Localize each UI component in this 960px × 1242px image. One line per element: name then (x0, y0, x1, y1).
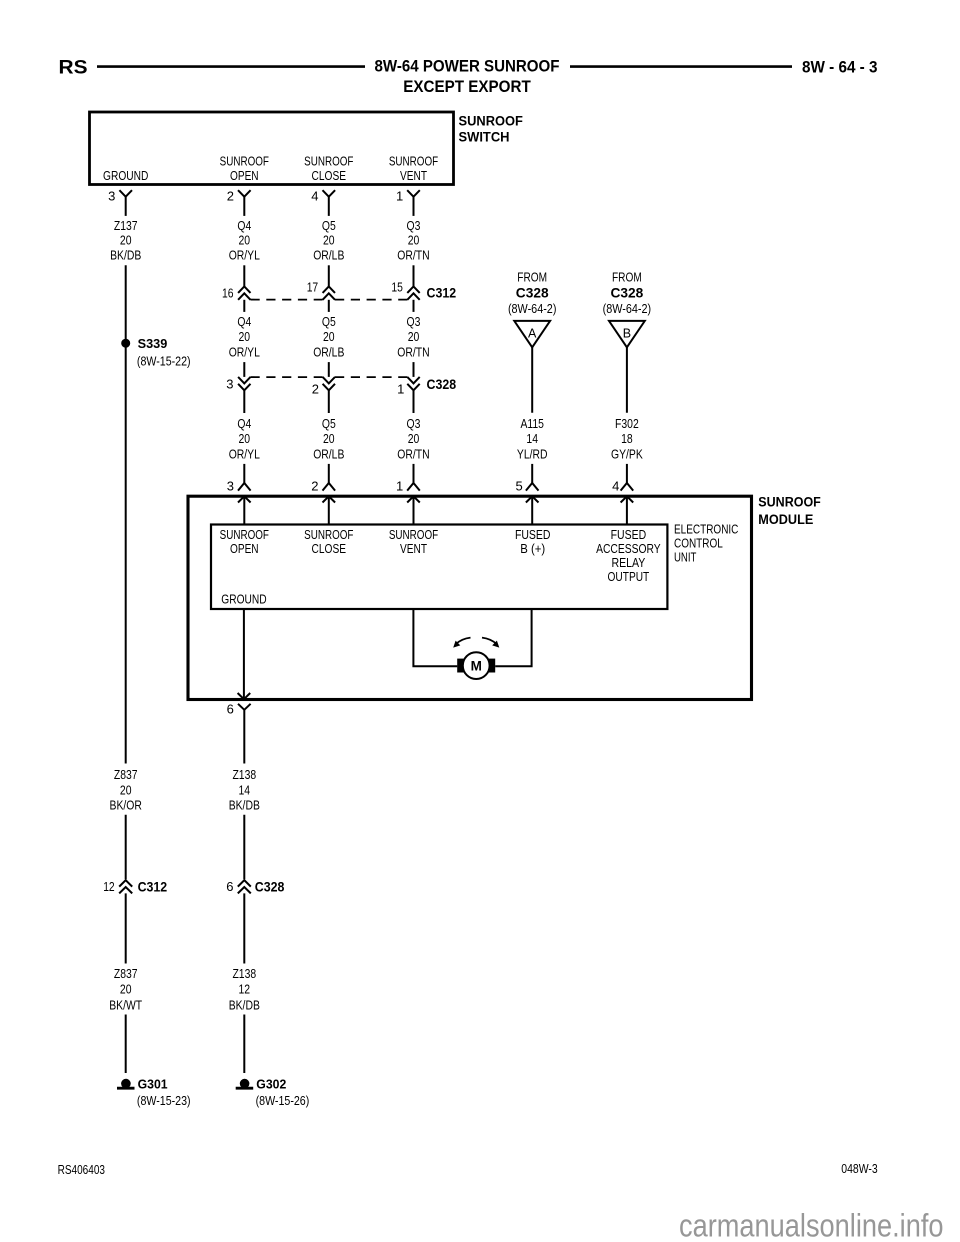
module input arrow (323, 496, 336, 502)
svg-text:6: 6 (227, 702, 234, 717)
wire (243, 1015, 245, 1074)
svg-text:20: 20 (323, 329, 335, 344)
svg-text:4: 4 (311, 188, 318, 203)
svg-text:Z837: Z837 (114, 767, 138, 782)
wire (626, 464, 628, 483)
module ground output arrow (238, 693, 244, 699)
svg-text:Q5: Q5 (322, 416, 336, 431)
svg-text:RELAY: RELAY (611, 555, 645, 570)
connector C312 dashed tie line (251, 299, 323, 301)
motor rotation arrow left (456, 638, 471, 645)
splice S339 (121, 339, 130, 348)
wire (243, 710, 245, 764)
svg-text:BK/OR: BK/OR (110, 798, 142, 813)
connector C328 dashed tie line (251, 376, 323, 378)
wire Z137/Z837 ground leg (125, 265, 127, 763)
svg-text:M: M (471, 659, 482, 674)
svg-text:FUSED: FUSED (515, 527, 551, 542)
wire (243, 464, 245, 483)
svg-text:OR/TN: OR/TN (397, 344, 429, 359)
wire (243, 265, 245, 286)
svg-text:GY/PK: GY/PK (611, 446, 643, 461)
svg-text:RS406403: RS406403 (58, 1163, 105, 1177)
svg-text:Q4: Q4 (237, 314, 251, 329)
svg-text:12: 12 (103, 879, 115, 894)
header rule right (570, 65, 792, 68)
svg-text:CLOSE: CLOSE (312, 168, 347, 183)
svg-text:(8W-15-22): (8W-15-22) (137, 353, 191, 368)
wire (125, 1015, 127, 1074)
sunroof switch box (90, 112, 454, 185)
svg-text:Q4: Q4 (237, 218, 251, 233)
svg-text:SUNROOF: SUNROOF (220, 527, 269, 542)
svg-text:Q5: Q5 (322, 218, 336, 233)
wire ECU ground leg (243, 609, 245, 699)
svg-text:G302: G302 (256, 1077, 286, 1092)
svg-text:B (+): B (+) (520, 541, 545, 556)
module input arrow (407, 496, 420, 502)
svg-text:2: 2 (227, 188, 234, 203)
svg-text:SUNROOF: SUNROOF (389, 154, 438, 169)
svg-text:8W - 64 - 3: 8W - 64 - 3 (802, 58, 878, 77)
svg-text:20: 20 (408, 329, 420, 344)
svg-text:(8W-64-2): (8W-64-2) (603, 301, 652, 316)
svg-text:OR/TN: OR/TN (397, 446, 429, 461)
svg-text:FROM: FROM (517, 269, 547, 284)
wire ECU to motor right (495, 609, 531, 666)
svg-text:OPEN: OPEN (230, 168, 259, 183)
svg-text:G301: G301 (138, 1077, 168, 1092)
wire (531, 464, 533, 483)
svg-text:15: 15 (391, 280, 403, 295)
svg-text:1: 1 (396, 479, 403, 494)
wire (626, 347, 628, 413)
svg-text:SUNROOF: SUNROOF (304, 154, 353, 169)
svg-text:Z138: Z138 (232, 966, 256, 981)
svg-text:BK/DB: BK/DB (110, 247, 141, 262)
svg-text:MODULE: MODULE (758, 512, 813, 527)
svg-text:SWITCH: SWITCH (459, 129, 510, 144)
svg-text:Q3: Q3 (407, 218, 421, 233)
svg-text:1: 1 (397, 382, 404, 397)
module input arrow (621, 496, 634, 502)
svg-text:20: 20 (120, 233, 132, 248)
svg-text:20: 20 (120, 981, 132, 996)
ground G301 (121, 1079, 131, 1089)
svg-text:VENT: VENT (400, 168, 427, 183)
svg-text:OR/TN: OR/TN (397, 247, 429, 262)
svg-text:20: 20 (239, 431, 251, 446)
svg-text:CLOSE: CLOSE (312, 541, 347, 556)
svg-text:VENT: VENT (400, 541, 427, 556)
svg-text:048W-3: 048W-3 (841, 1162, 877, 1176)
svg-text:EXCEPT EXPORT: EXCEPT EXPORT (403, 77, 531, 96)
svg-text:A115: A115 (520, 416, 544, 431)
svg-text:3: 3 (226, 376, 233, 391)
svg-text:UNIT: UNIT (674, 550, 696, 565)
svg-text:20: 20 (239, 329, 251, 344)
svg-text:A: A (528, 327, 537, 341)
svg-text:12: 12 (239, 981, 251, 996)
svg-text:20: 20 (408, 431, 420, 446)
svg-text:OR/YL: OR/YL (229, 446, 260, 461)
svg-text:GROUND: GROUND (103, 168, 148, 183)
module input arrow (526, 496, 539, 502)
svg-text:CONTROL: CONTROL (674, 536, 723, 551)
svg-text:F302: F302 (615, 416, 639, 431)
svg-text:5: 5 (515, 479, 522, 494)
svg-text:OR/LB: OR/LB (313, 247, 344, 262)
wire (413, 464, 415, 483)
electronic control unit box (211, 525, 667, 610)
svg-text:18: 18 (621, 431, 633, 446)
svg-text:OR/YL: OR/YL (229, 247, 260, 262)
svg-text:Z137: Z137 (114, 218, 138, 233)
svg-text:(8W-15-23): (8W-15-23) (137, 1093, 191, 1108)
motor brush left (457, 659, 464, 673)
wire (413, 362, 415, 377)
svg-text:20: 20 (239, 233, 251, 248)
svg-text:3: 3 (108, 188, 115, 203)
svg-text:GROUND: GROUND (221, 591, 266, 606)
svg-text:C328: C328 (255, 880, 285, 895)
sunroof module box (188, 496, 752, 699)
svg-text:C312: C312 (138, 880, 168, 895)
svg-text:16: 16 (222, 285, 234, 300)
svg-text:Z837: Z837 (114, 966, 138, 981)
svg-text:(8W-64-2): (8W-64-2) (508, 301, 557, 316)
svg-text:SUNROOF: SUNROOF (304, 527, 353, 542)
svg-text:BK/DB: BK/DB (229, 798, 260, 813)
svg-text:C312: C312 (427, 286, 457, 301)
svg-text:6: 6 (226, 879, 233, 894)
svg-text:RS: RS (59, 57, 88, 79)
wire ECU to motor left (413, 609, 457, 666)
svg-text:OUTPUT: OUTPUT (608, 569, 650, 584)
svg-text:FROM: FROM (612, 269, 642, 284)
svg-text:BK/DB: BK/DB (229, 997, 260, 1012)
svg-text:20: 20 (323, 233, 335, 248)
svg-text:ACCESSORY: ACCESSORY (596, 541, 661, 556)
svg-text:C328: C328 (516, 285, 549, 301)
svg-text:Q5: Q5 (322, 314, 336, 329)
wire (243, 815, 245, 880)
svg-text:2: 2 (312, 382, 319, 397)
svg-text:FUSED: FUSED (611, 527, 647, 542)
svg-text:(8W-15-26): (8W-15-26) (256, 1093, 310, 1108)
svg-text:ELECTRONIC: ELECTRONIC (674, 522, 738, 537)
svg-text:OPEN: OPEN (230, 541, 259, 556)
motor rotation arrow right (482, 638, 497, 645)
module input arrow (238, 496, 251, 502)
svg-text:1: 1 (396, 188, 403, 203)
header rule left (97, 65, 365, 68)
wire (328, 362, 330, 377)
wire (328, 265, 330, 286)
svg-text:S339: S339 (138, 336, 168, 351)
svg-text:8W-64 POWER SUNROOF: 8W-64 POWER SUNROOF (375, 57, 560, 76)
svg-text:BK/WT: BK/WT (109, 997, 142, 1012)
svg-text:SUNROOF: SUNROOF (758, 495, 821, 510)
motor M1 (463, 652, 490, 679)
svg-text:C328: C328 (611, 285, 644, 301)
svg-text:OR/LB: OR/LB (313, 446, 344, 461)
svg-text:SUNROOF: SUNROOF (389, 527, 438, 542)
wire (243, 362, 245, 377)
svg-text:SUNROOF: SUNROOF (220, 154, 269, 169)
motor brush right (489, 659, 496, 673)
svg-text:Q4: Q4 (237, 416, 251, 431)
svg-text:B: B (623, 327, 631, 341)
svg-text:14: 14 (526, 431, 538, 446)
svg-text:C328: C328 (427, 377, 457, 392)
wire (125, 815, 127, 880)
svg-text:14: 14 (239, 782, 251, 797)
wire (328, 464, 330, 483)
wire (413, 265, 415, 286)
svg-text:SUNROOF: SUNROOF (459, 113, 523, 128)
svg-text:2: 2 (311, 479, 318, 494)
svg-text:4: 4 (612, 479, 619, 494)
svg-text:OR/LB: OR/LB (313, 344, 344, 359)
svg-text:20: 20 (323, 431, 335, 446)
svg-text:YL/RD: YL/RD (517, 446, 548, 461)
svg-text:OR/YL: OR/YL (229, 344, 260, 359)
ground G302 (240, 1079, 250, 1089)
svg-text:20: 20 (408, 233, 420, 248)
svg-text:3: 3 (227, 479, 234, 494)
svg-text:carmanualsonline.info: carmanualsonline.info (679, 1207, 944, 1242)
svg-text:Z138: Z138 (232, 767, 256, 782)
svg-text:17: 17 (307, 280, 319, 295)
svg-text:Q3: Q3 (407, 314, 421, 329)
svg-text:Q3: Q3 (407, 416, 421, 431)
label SUNROOF SWITCH (459, 113, 523, 144)
wire (531, 347, 533, 413)
svg-text:20: 20 (120, 782, 132, 797)
